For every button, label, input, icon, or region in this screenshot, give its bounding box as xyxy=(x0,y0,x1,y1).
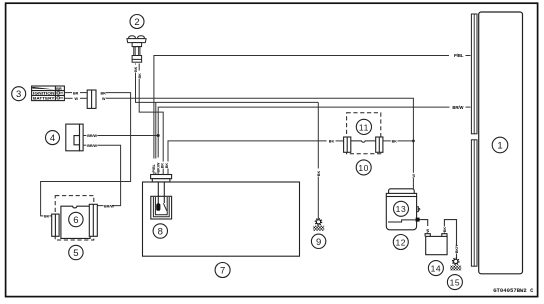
circle 10 xyxy=(356,160,371,175)
svg-text:BK: BK xyxy=(392,140,398,144)
svg-text:6: 6 xyxy=(73,215,78,226)
wire igniter tab to battery plus xyxy=(420,220,428,234)
svg-text:BK: BK xyxy=(443,227,447,233)
svg-text:BK: BK xyxy=(329,140,335,144)
wire ignition W: right, down at x=413.4 to igniter 13 xyxy=(106,98,413,189)
svg-text:BK: BK xyxy=(317,171,321,177)
coil connector micro labels xyxy=(152,158,169,173)
switch output wires xyxy=(64,93,87,99)
svg-text:2: 2 xyxy=(134,17,139,28)
svg-text:13: 13 xyxy=(396,204,407,214)
circle 6 xyxy=(69,212,83,226)
label P/BL xyxy=(454,53,471,58)
wire BR/W: coil pin B to component 1 xyxy=(158,107,449,174)
component 6 relay body xyxy=(61,206,90,238)
svg-text:15: 15 xyxy=(450,278,461,288)
svg-text:BR: BR xyxy=(56,87,62,91)
component 4 stop switch xyxy=(66,124,83,151)
comp4 wires and labels xyxy=(83,136,86,146)
wire ignition BR: down at x=130.6 to relay left xyxy=(41,93,131,216)
coil connector 8 xyxy=(151,175,172,182)
svg-text:BR: BR xyxy=(73,91,79,95)
svg-text:BK: BK xyxy=(44,215,50,219)
svg-text:BATTERY: BATTERY xyxy=(33,96,55,100)
svg-text:BR/W: BR/W xyxy=(104,204,114,208)
svg-text:4: 4 xyxy=(50,133,55,144)
component 3 ignition switch xyxy=(32,86,65,101)
component 11 dashed fuse housing xyxy=(347,113,381,154)
wire coil pin D to fuse left xyxy=(168,141,344,175)
wire label ticks on W drop xyxy=(412,173,416,178)
svg-text:BK/Y: BK/Y xyxy=(455,244,459,253)
svg-text:W: W xyxy=(75,97,79,101)
relay right terminal xyxy=(89,204,97,236)
wire P/BL: coil pin A up and right to component 1 xyxy=(154,56,449,175)
battery minus wire tick xyxy=(443,227,447,233)
svg-text:1: 1 xyxy=(497,141,502,152)
circle 13 xyxy=(394,201,409,216)
component 1 connector strip xyxy=(471,14,477,266)
junction dot fuse/W xyxy=(412,140,415,143)
svg-text:BR/W: BR/W xyxy=(452,105,463,110)
wire comp4 bottom down to relay right xyxy=(97,145,120,205)
svg-text:3: 3 xyxy=(16,89,21,100)
circle 9 xyxy=(311,234,325,248)
svg-text:BK: BK xyxy=(165,163,169,169)
svg-text:11: 11 xyxy=(359,122,369,132)
svg-text:9: 9 xyxy=(316,237,321,248)
svg-text:8: 8 xyxy=(158,227,163,238)
igniter output tab xyxy=(416,218,420,222)
svg-text:12: 12 xyxy=(395,237,406,247)
svg-text:W: W xyxy=(412,174,416,178)
circle 7 xyxy=(215,263,230,278)
circle 3 xyxy=(12,87,26,101)
component 2 spark plug xyxy=(127,36,146,62)
svg-text:P/BL: P/BL xyxy=(454,53,464,58)
wire comp4 top to coil pin B junction xyxy=(97,135,158,137)
svg-text:7: 7 xyxy=(220,266,225,277)
circle 5 xyxy=(69,245,83,259)
switch table texts xyxy=(33,87,63,101)
svg-text:BR/W: BR/W xyxy=(87,144,97,148)
junction dot xyxy=(157,134,160,137)
ground 9 symbol xyxy=(313,219,324,231)
svg-text:BK: BK xyxy=(138,73,142,79)
svg-text:GT04057BW2 C: GT04057BW2 C xyxy=(493,287,534,294)
circle 15 xyxy=(447,275,462,290)
svg-text:W: W xyxy=(102,97,106,101)
svg-text:BK: BK xyxy=(134,66,138,72)
component 8 ignition coil xyxy=(151,182,172,219)
circle 2 xyxy=(130,15,144,29)
svg-text:W: W xyxy=(426,228,430,232)
wire battery minus to ground 15 xyxy=(444,220,456,259)
component 1 main harness box xyxy=(479,12,523,274)
component 10 fuse element xyxy=(344,137,383,152)
wire fuse right to W-drop junction xyxy=(383,140,414,142)
svg-text:BR: BR xyxy=(101,91,107,95)
connector comp3 xyxy=(87,90,96,108)
circle 4 xyxy=(46,131,60,145)
component 13 igniter body xyxy=(386,189,420,230)
svg-text:10: 10 xyxy=(358,163,369,173)
svg-text:IGNITION: IGNITION xyxy=(33,92,55,96)
component 14 battery xyxy=(425,234,447,255)
circle 8 xyxy=(153,224,167,238)
svg-text:14: 14 xyxy=(431,264,442,274)
circle 12 xyxy=(393,235,408,250)
ground 15 symbol xyxy=(450,258,461,270)
spark plug wire micro labels xyxy=(134,65,137,73)
component 5 dashed housing xyxy=(55,196,94,240)
svg-text:BR/W: BR/W xyxy=(87,134,97,138)
box 7 xyxy=(143,182,300,256)
circle 11 xyxy=(356,119,371,134)
ground 9 wire ticks xyxy=(317,169,321,177)
svg-text:5: 5 xyxy=(73,248,78,259)
wire ground net: plug shell down, right to ground 9 xyxy=(136,64,319,219)
wire plug center to coil pin C xyxy=(139,64,163,175)
circle 1 xyxy=(492,137,508,153)
relay left terminal xyxy=(52,214,59,236)
svg-text:BK: BK xyxy=(161,163,165,169)
circle 14 xyxy=(428,261,443,276)
label BR/W right xyxy=(452,105,470,110)
